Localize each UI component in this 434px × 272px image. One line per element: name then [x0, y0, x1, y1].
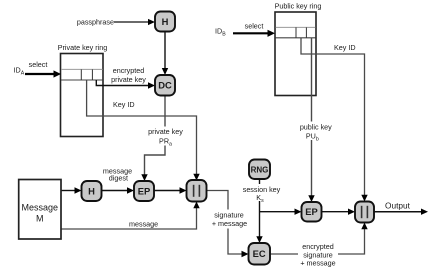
wire: public key PUb to EP2	[308, 38, 314, 202]
svg-text:select: select	[245, 22, 264, 31]
wire: H to DC	[162, 32, 168, 76]
svg-text:+ message: + message	[300, 259, 335, 268]
hash box H top	[155, 12, 175, 32]
wire: private key PRa from DC to EP	[141, 96, 165, 182]
message M box	[19, 180, 61, 240]
label: message	[129, 220, 158, 229]
svg-text:digest: digest	[109, 173, 128, 182]
label: public key PUb	[297, 122, 335, 143]
svg-text:M: M	[36, 214, 44, 224]
wire: encrypted signature to concat2 bottom	[270, 223, 368, 255]
label: select right	[245, 22, 264, 31]
svg-text:Message: Message	[22, 203, 59, 213]
svg-text:H: H	[162, 16, 169, 27]
label: encrypted signature + message	[298, 242, 338, 268]
encryption box EP2	[302, 202, 322, 222]
public key ring box	[275, 12, 316, 96]
encryption box EC	[249, 243, 271, 265]
decryption box DC	[155, 75, 175, 96]
svg-text:private key: private key	[111, 75, 146, 84]
svg-text:encrypted: encrypted	[113, 66, 145, 75]
label: message digest	[103, 166, 132, 182]
label: passphrase	[77, 18, 114, 27]
encryption box EP1	[134, 181, 154, 201]
random number generator RNG	[249, 160, 270, 180]
label: select left	[29, 60, 48, 69]
label: Key ID right	[334, 43, 356, 52]
svg-text:session key: session key	[243, 185, 281, 194]
wire: message to H	[61, 187, 82, 193]
wire: Key ID right to concat2	[301, 38, 368, 202]
svg-text:select: select	[29, 60, 48, 69]
svg-text:H: H	[88, 185, 95, 196]
wire: signature+message to EC	[207, 191, 249, 258]
concatenation box 1	[187, 180, 207, 202]
svg-text:Public key ring: Public key ring	[275, 2, 322, 11]
label: Public key ring	[275, 2, 322, 11]
svg-text:Key ID: Key ID	[334, 43, 356, 52]
wire: Key ID left to concat	[87, 80, 200, 181]
svg-text:EP: EP	[138, 185, 151, 196]
wire: message digest H to EP	[102, 187, 134, 193]
svg-text:DC: DC	[158, 80, 172, 91]
svg-text:public key: public key	[300, 123, 332, 132]
label: Output	[385, 201, 411, 211]
wire: IDB select arrow	[233, 30, 275, 37]
svg-text:Key ID: Key ID	[113, 100, 135, 109]
label: encrypted private key	[111, 66, 146, 84]
svg-text:Private key ring: Private key ring	[58, 43, 108, 52]
label: IDA	[14, 66, 25, 77]
svg-text:private key: private key	[148, 127, 183, 136]
label: private key PRa	[146, 127, 185, 148]
wire: passphrase to H	[114, 19, 155, 25]
wire: EP to concat	[154, 187, 187, 193]
svg-text:Output: Output	[385, 201, 411, 211]
wire: encrypted private key to DC	[96, 80, 155, 89]
wire: session key RNG to EC	[256, 179, 262, 243]
svg-text:EP: EP	[305, 206, 318, 217]
concatenation box 2	[355, 202, 374, 223]
wire: session key to EP2	[260, 209, 302, 215]
svg-text:+ message: + message	[212, 219, 247, 228]
wire: IDA select arrow	[25, 70, 61, 77]
label: Private key ring	[58, 43, 108, 52]
wire: message line to concat bottom	[61, 202, 200, 230]
svg-text:RNG: RNG	[251, 165, 269, 174]
private key ring box	[61, 54, 104, 137]
wire: EP2 to concat2	[322, 209, 356, 215]
label: signature + message	[211, 210, 248, 229]
label: IDB	[215, 27, 226, 38]
hash box H bottom	[82, 181, 102, 201]
svg-text:EC: EC	[253, 248, 266, 259]
svg-text:message: message	[129, 220, 158, 229]
wire: output arrow	[374, 209, 428, 215]
label: Key ID left	[113, 100, 135, 109]
svg-text:passphrase: passphrase	[77, 18, 114, 27]
label: session key Ks	[241, 184, 282, 204]
